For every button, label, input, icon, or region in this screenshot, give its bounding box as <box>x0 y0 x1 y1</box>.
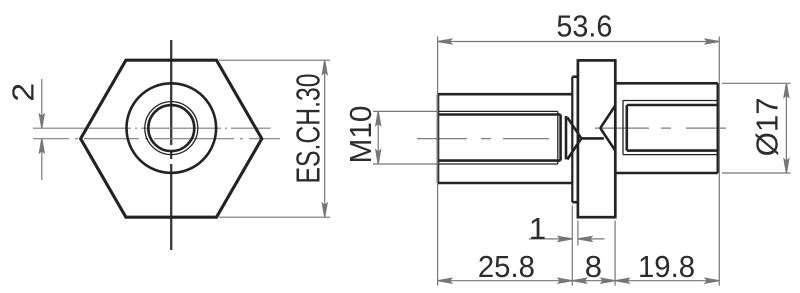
thread minor circle M10 <box>148 105 194 151</box>
hex horizontal centerline (lower, hex axis) <box>33 138 280 140</box>
svg-text:2: 2 <box>6 83 41 102</box>
svg-text:8: 8 <box>585 249 602 284</box>
extension line flange right <box>614 221 616 286</box>
dimension 53.6 <box>438 39 720 44</box>
outer circle Ø17 body silhouette <box>127 83 217 173</box>
dimension 2 (eccentricity) <box>39 79 44 180</box>
dimension 1 <box>529 237 605 242</box>
svg-text:53.6: 53.6 <box>556 9 612 44</box>
left axis centerline <box>417 138 549 140</box>
left hole drill cone <box>567 117 581 159</box>
svg-text:ES.CH.30: ES.CH.30 <box>290 74 327 184</box>
extension line right end <box>718 37 720 286</box>
collar 1mm <box>572 77 578 203</box>
svg-text:M10: M10 <box>343 106 378 164</box>
hex flange side view <box>578 60 615 217</box>
extension line flange left <box>577 221 579 246</box>
dimension Ø17 <box>722 83 791 173</box>
thread major circle M10 <box>145 102 198 155</box>
right tapped hole thread major lines <box>623 101 718 155</box>
left tapped hole M10 thread major lines <box>438 111 558 164</box>
right axis centerline <box>595 127 726 129</box>
extension line collar left <box>571 206 573 286</box>
hex body outline <box>81 60 262 217</box>
svg-text:Ø17: Ø17 <box>750 97 785 156</box>
dimension M10 <box>373 111 438 164</box>
left tapped hole minor lines <box>438 115 561 161</box>
collar face / left body end <box>571 77 573 203</box>
left body Ø17 outline <box>438 94 572 183</box>
svg-text:25.8: 25.8 <box>478 249 535 284</box>
dimension ES.CH.30 (hex across flats) <box>219 60 330 217</box>
hole horizontal centerline (upper, hole axis) <box>33 127 271 129</box>
right hole drill cone <box>600 106 615 151</box>
vertical centerline of hex view <box>170 40 172 250</box>
extension line left end <box>437 37 439 286</box>
right tapped hole minor lines <box>627 105 718 151</box>
svg-text:19.8: 19.8 <box>638 249 695 284</box>
right body Ø17 outline <box>615 83 718 173</box>
svg-text:1: 1 <box>529 211 546 246</box>
bore intersection edge <box>581 137 604 140</box>
bottom chained dimension line <box>438 278 720 283</box>
left hole drill end <box>565 116 568 159</box>
